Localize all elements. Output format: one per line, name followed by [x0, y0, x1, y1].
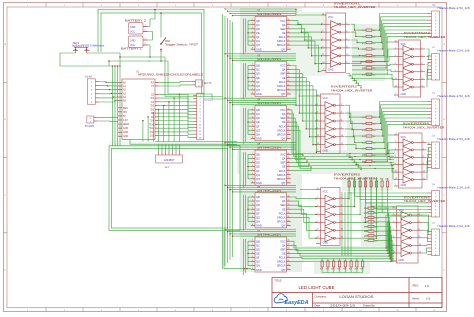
svg-text:9: 9: [288, 224, 289, 226]
svg-text:7: 7: [323, 69, 324, 71]
svg-text:QG: QG: [256, 84, 260, 88]
svg-text:15: 15: [288, 244, 290, 246]
wire SR6 fanout bottom bus: [291, 241, 394, 261]
svg-text:4: 4: [252, 31, 253, 33]
svg-text:2: 2: [341, 104, 342, 106]
svg-text:100: 100: [373, 130, 376, 132]
svg-text:OE: OE: [282, 165, 286, 169]
svg-text:2: 2: [252, 112, 253, 114]
svg-text:QH': QH': [281, 268, 286, 272]
svg-text:*D10: *D10: [149, 124, 155, 126]
svg-text:13: 13: [317, 143, 319, 145]
svg-text:QF: QF: [256, 35, 260, 39]
svg-text:13: 13: [393, 251, 395, 253]
svg-text:SRCLR: SRCLR: [277, 177, 286, 181]
wire bottom band to INV6 inputs: [385, 215, 392, 262]
svg-text:9: 9: [288, 268, 289, 270]
svg-text:2: 2: [252, 68, 253, 70]
IC INVERTER6 74HC04 hex inverter: [392, 195, 446, 263]
svg-text:3.3V: 3.3V: [123, 120, 128, 122]
svg-text:RCLK: RCLK: [279, 35, 286, 39]
IC U3 SN74HC595N shift register: [251, 54, 291, 96]
resistor array R26-R33 stack3: [364, 207, 378, 242]
svg-text:2: 2: [252, 23, 253, 25]
wire vertical bus KEY to loop: [112, 65, 121, 145]
svg-text:R38: R38: [369, 179, 372, 181]
svg-text:GND: GND: [399, 259, 405, 262]
wire row2 bottom return bus: [224, 231, 363, 273]
wire shield GND row: [130, 140, 237, 145]
svg-text:10: 10: [288, 220, 290, 222]
svg-text:RES: RES: [123, 108, 128, 110]
svg-text:7: 7: [393, 259, 394, 261]
svg-text:VCC: VCC: [280, 239, 286, 243]
header RX-TX: [192, 80, 212, 87]
svg-text:100: 100: [375, 236, 378, 238]
svg-text:AREF: AREF: [123, 123, 130, 126]
svg-text:13: 13: [395, 178, 397, 180]
svg-text:13: 13: [288, 76, 290, 78]
IC INVERTER2 74HC04 hex inverter: [316, 84, 373, 153]
svg-text:5: 5: [252, 212, 253, 214]
svg-text:R37: R37: [364, 179, 367, 181]
svg-text:QH: QH: [256, 88, 260, 92]
junction dots: [315, 24, 322, 146]
svg-text:RCLK: RCLK: [279, 80, 286, 84]
svg-text:2: 2: [419, 213, 420, 215]
IC U5 SN74HC595N shift register: [251, 143, 291, 185]
svg-text:9: 9: [322, 46, 323, 48]
svg-text:7: 7: [252, 177, 253, 179]
svg-text:GND: GND: [123, 128, 128, 130]
wire L1-7 pins to GND band: [159, 144, 180, 151]
svg-text:12: 12: [419, 251, 421, 253]
svg-text:7: 7: [395, 184, 396, 186]
wire INV6 outputs to header C6: [423, 215, 429, 253]
svg-text:QD: QD: [256, 27, 260, 31]
svg-text:QF: QF: [256, 124, 260, 128]
wire mid band to INV4: [387, 143, 394, 180]
svg-text:QB: QB: [256, 195, 260, 199]
svg-text:QD: QD: [256, 161, 260, 165]
title block: [272, 278, 442, 308]
svg-text:Header-Male-2.54_1x8: Header-Male-2.54_1x8: [438, 7, 471, 10]
svg-text:11: 11: [317, 229, 319, 231]
svg-text:7: 7: [252, 133, 253, 135]
wire U5 left hairpin loops: [244, 152, 251, 188]
svg-text:7: 7: [395, 93, 396, 95]
battery BATTERY 1: [121, 36, 148, 50]
svg-text:14: 14: [199, 137, 201, 139]
svg-text:BATTERY 2: BATTERY 2: [125, 19, 147, 23]
svg-text:TITLE:: TITLE:: [275, 280, 283, 283]
svg-text:16: 16: [288, 108, 290, 110]
svg-text:R17: R17: [362, 74, 365, 76]
svg-text:QH': QH': [281, 47, 286, 51]
svg-text:VCC: VCC: [323, 97, 328, 100]
svg-text:SRCLK: SRCLK: [277, 39, 286, 43]
IC INVERTER1 74HC04 hex inverter: [322, 1, 377, 72]
svg-text:QG: QG: [256, 173, 260, 177]
svg-text:6: 6: [423, 156, 424, 158]
svg-text:RCLK: RCLK: [279, 124, 286, 128]
svg-text:13: 13: [322, 62, 324, 64]
svg-text:3: 3: [322, 31, 323, 33]
svg-text:3: 3: [252, 248, 253, 250]
IC INVERTER3 74HC04 hex inverter: [394, 31, 446, 97]
svg-text:2: 2: [200, 99, 201, 101]
svg-text:14: 14: [395, 133, 397, 135]
svg-text:100: 100: [373, 155, 376, 157]
svg-text:1: 1: [395, 141, 396, 143]
svg-text:4: 4: [252, 76, 253, 78]
resistor array R18-R25 stack2: [362, 116, 376, 163]
svg-text:11: 11: [322, 54, 324, 56]
svg-text:R48: R48: [355, 269, 358, 271]
svg-text:12: 12: [421, 85, 423, 87]
svg-text:5: 5: [317, 213, 318, 215]
wire stack3 to bottom bus: [377, 208, 392, 261]
svg-text:SER: SER: [280, 116, 285, 120]
IC U7 SN74HC595N shift register: [251, 230, 291, 272]
svg-text:QC: QC: [256, 243, 260, 247]
svg-text:QA: QA: [282, 199, 286, 203]
svg-text:14: 14: [317, 188, 319, 190]
svg-text:4: 4: [421, 55, 422, 57]
svg-text:1: 1: [252, 240, 253, 242]
svg-text:14: 14: [288, 204, 290, 206]
svg-text:QG: QG: [256, 128, 260, 132]
svg-text:8: 8: [252, 224, 253, 226]
svg-text:VCC: VCC: [130, 31, 135, 34]
svg-text:RX: RX: [151, 82, 155, 84]
svg-text:1: 1: [252, 19, 253, 21]
wire A1-A5 to shield: [99, 82, 118, 103]
svg-text:1: 1: [393, 213, 394, 215]
svg-text:100: 100: [373, 149, 376, 151]
svg-text:3: 3: [252, 161, 253, 163]
svg-text:SRCLR: SRCLR: [277, 220, 286, 224]
wire RXTX: [159, 82, 192, 86]
svg-text:5: 5: [252, 256, 253, 258]
svg-text:QD: QD: [256, 203, 260, 207]
svg-text:16: 16: [288, 240, 290, 242]
svg-text:8: 8: [252, 181, 253, 183]
svg-text:10: 10: [288, 44, 290, 46]
wire SR3 SR4 fanout mid bus: [291, 110, 394, 171]
svg-text:GND: GND: [123, 136, 128, 138]
svg-text:3: 3: [395, 148, 396, 150]
svg-text:QE: QE: [256, 207, 260, 211]
svg-text:5: 5: [252, 35, 253, 37]
wire shield D2-D13 to header: [159, 94, 193, 137]
svg-text:VCC: VCC: [280, 108, 286, 112]
svg-text:15: 15: [288, 68, 290, 70]
svg-text:QE: QE: [256, 252, 260, 256]
svg-text:OE: OE: [282, 207, 286, 211]
wire U7 left hairpin loops: [244, 239, 251, 275]
svg-text:9: 9: [395, 163, 396, 165]
svg-text:QC: QC: [256, 68, 260, 72]
svg-text:100: 100: [373, 142, 376, 144]
svg-text:12: 12: [423, 178, 425, 180]
svg-text:74HC04_HEX_INVERTER: 74HC04_HEX_INVERTER: [403, 126, 446, 130]
svg-text:VCC: VCC: [280, 153, 286, 157]
svg-text:11: 11: [288, 84, 290, 86]
svg-text:13: 13: [288, 165, 290, 167]
svg-text:14: 14: [393, 206, 395, 208]
svg-text:3: 3: [317, 112, 318, 114]
svg-text:6: 6: [421, 63, 422, 65]
svg-text:100: 100: [373, 43, 376, 45]
svg-text:GND: GND: [256, 92, 262, 96]
svg-text:8: 8: [346, 46, 347, 48]
svg-text:11: 11: [395, 78, 397, 80]
svg-text:SRCLR: SRCLR: [277, 88, 286, 92]
svg-text:QE: QE: [256, 76, 260, 80]
IC INVERTER5 74HC04 hex inverter: [316, 173, 376, 246]
svg-text:A1-A5: A1-A5: [85, 75, 92, 78]
svg-text:16: 16: [288, 64, 290, 66]
svg-text:14: 14: [288, 72, 290, 74]
wire control bus verticals: [223, 14, 233, 269]
svg-text:14: 14: [322, 13, 324, 15]
svg-text:10: 10: [288, 264, 290, 266]
wire row1 to header C5: [349, 189, 427, 216]
svg-text:11: 11: [288, 260, 290, 262]
svg-text:6: 6: [252, 173, 253, 175]
svg-text:RCLK: RCLK: [279, 211, 286, 215]
svg-text:QD: QD: [256, 116, 260, 120]
svg-text:15: 15: [288, 23, 290, 25]
svg-text:SRCLK: SRCLK: [277, 84, 286, 88]
svg-text:13: 13: [288, 31, 290, 33]
svg-text:8: 8: [252, 268, 253, 270]
svg-text:2: 2: [423, 141, 424, 143]
svg-text:TX: TX: [151, 86, 154, 88]
svg-text:12: 12: [288, 169, 290, 171]
svg-text:KEY1: KEY1: [73, 42, 80, 45]
svg-text:D12: D12: [150, 132, 155, 134]
svg-text:R44: R44: [332, 269, 335, 271]
svg-text:13: 13: [288, 252, 290, 254]
svg-text:8: 8: [252, 48, 253, 50]
wire SR gap buses: [224, 8, 296, 236]
svg-text:SRCLK: SRCLK: [277, 260, 286, 264]
svg-text:R25: R25: [362, 161, 365, 163]
svg-text:5: 5: [393, 229, 394, 231]
svg-text:7: 7: [317, 242, 318, 244]
svg-text:QA: QA: [282, 68, 286, 72]
svg-text:12: 12: [341, 143, 343, 145]
svg-text:5: 5: [200, 108, 201, 110]
svg-text:QA: QA: [282, 112, 286, 116]
svg-text:QH': QH': [281, 136, 286, 140]
svg-text:14: 14: [317, 94, 319, 96]
svg-text:OE: OE: [282, 76, 286, 80]
svg-text:QH': QH': [281, 224, 286, 228]
svg-text:Sheet:: Sheet:: [412, 296, 420, 300]
svg-text:10: 10: [341, 135, 343, 137]
svg-text:12: 12: [199, 131, 201, 133]
svg-text:5V: 5V: [123, 116, 126, 118]
svg-text:6: 6: [252, 129, 253, 131]
svg-text:ARDUINO_SHIELDNCHOLESORLABELS: ARDUINO_SHIELDNCHOLESORLABELS: [138, 73, 203, 77]
svg-text:3: 3: [252, 72, 253, 74]
svg-text:QF: QF: [256, 169, 260, 173]
svg-text:100: 100: [373, 74, 376, 76]
svg-text:Header-Male-2.54_1x8: Header-Male-2.54_1x8: [438, 50, 471, 53]
wire battery switch net: [148, 9, 205, 97]
header 5V GND: [85, 116, 98, 128]
svg-text:SER: SER: [280, 161, 285, 165]
svg-text:RCLK: RCLK: [279, 169, 286, 173]
svg-text:QC: QC: [256, 112, 260, 116]
svg-text:GND: GND: [256, 181, 262, 185]
svg-text:R34: R34: [347, 179, 350, 181]
svg-text:R19: R19: [362, 124, 365, 126]
IC INVERTER4 74HC04 hex inverter: [394, 122, 445, 188]
svg-text:5: 5: [395, 156, 396, 158]
svg-text:2: 2: [252, 244, 253, 246]
svg-text:QE: QE: [256, 31, 260, 35]
svg-text:9: 9: [288, 92, 289, 94]
svg-text:OE: OE: [282, 120, 286, 124]
svg-text:GND: GND: [401, 184, 407, 187]
svg-text:1: 1: [252, 108, 253, 110]
background tint areas: [97, 8, 399, 274]
svg-text:SER: SER: [280, 72, 285, 76]
svg-text:4: 4: [346, 31, 347, 33]
svg-text:QG: QG: [256, 215, 260, 219]
svg-text:12: 12: [288, 80, 290, 82]
svg-text:11: 11: [317, 135, 319, 137]
svg-text:16: 16: [288, 19, 290, 21]
svg-text:1: 1: [200, 95, 201, 97]
svg-text:Company:: Company:: [315, 295, 328, 299]
svg-text:QE: QE: [256, 120, 260, 124]
svg-text:3: 3: [317, 205, 318, 207]
svg-text:5: 5: [322, 38, 323, 40]
svg-text:7: 7: [252, 44, 253, 46]
svg-text:100: 100: [375, 213, 378, 215]
svg-text:D13: D13: [150, 136, 155, 138]
svg-text:R12: R12: [362, 43, 365, 45]
svg-text:7: 7: [252, 264, 253, 266]
svg-text:100: 100: [373, 30, 376, 32]
svg-text:12: 12: [288, 35, 290, 37]
wire stack2 to headers C3 C4: [375, 102, 429, 180]
svg-text:QH: QH: [256, 43, 260, 47]
svg-text:R40: R40: [380, 179, 383, 181]
svg-text:10: 10: [346, 54, 348, 56]
svg-text:7: 7: [200, 115, 201, 117]
svg-text:R43: R43: [326, 269, 329, 271]
svg-text:100: 100: [375, 217, 378, 219]
svg-text:R39: R39: [375, 179, 378, 181]
svg-text:1: 1: [252, 64, 253, 66]
header C6 Header-Male-2.54_1x8: [428, 222, 471, 256]
svg-text:SRCLR: SRCLR: [277, 264, 286, 268]
svg-text:R13: R13: [362, 49, 365, 51]
svg-text:4: 4: [419, 221, 420, 223]
svg-text:5: 5: [252, 169, 253, 171]
svg-text:R15: R15: [362, 62, 365, 64]
svg-text:5: 5: [395, 63, 396, 65]
resistor array R42-R49 row2: [320, 258, 364, 271]
svg-text:GND: GND: [123, 132, 128, 134]
svg-text:4: 4: [252, 121, 253, 123]
svg-text:2019-09-19: 2019-09-19: [330, 304, 355, 308]
resistor array R34-R41 row1: [347, 178, 389, 190]
header C2 Header-Male-2.54_1x8: [428, 47, 471, 81]
svg-text:8: 8: [421, 70, 422, 72]
svg-text:REV:: REV:: [413, 284, 419, 288]
svg-text:QB: QB: [256, 153, 260, 157]
svg-text:6: 6: [252, 84, 253, 86]
svg-text:1234567: 1234567: [164, 158, 175, 162]
svg-text:SER: SER: [280, 203, 285, 207]
svg-text:16: 16: [288, 153, 290, 155]
svg-text:9: 9: [288, 137, 289, 139]
wire GND loop rectangle: [109, 146, 240, 231]
svg-text:QF: QF: [256, 211, 260, 215]
svg-text:5: 5: [252, 125, 253, 127]
svg-text:10: 10: [288, 177, 290, 179]
svg-text:VCC: VCC: [323, 191, 328, 194]
IC U6 SN74HC595N shift register: [251, 186, 291, 228]
svg-text:100: 100: [373, 161, 376, 163]
svg-text:QC: QC: [256, 199, 260, 203]
svg-text:8: 8: [252, 92, 253, 94]
svg-text:QA: QA: [282, 243, 286, 247]
svg-text:2: 2: [421, 47, 422, 49]
svg-text:6: 6: [419, 229, 420, 231]
svg-text:100: 100: [373, 37, 376, 39]
svg-text:9: 9: [288, 48, 289, 50]
svg-text:10: 10: [288, 88, 290, 90]
svg-text:QC: QC: [256, 157, 260, 161]
svg-text:100: 100: [373, 49, 376, 51]
svg-text:11: 11: [395, 171, 397, 173]
svg-text:1: 1: [322, 23, 323, 25]
svg-text:10: 10: [419, 244, 421, 246]
svg-text:L1-7: L1-7: [165, 167, 170, 169]
svg-text:R20: R20: [362, 130, 365, 132]
svg-text:100: 100: [375, 222, 378, 224]
svg-text:74HC04_HEX_INVERTER: 74HC04_HEX_INVERTER: [404, 35, 447, 39]
battery BATTERY 2: [125, 19, 148, 34]
IC U4 SN74HC595N shift register: [251, 99, 291, 141]
svg-text:QH: QH: [256, 264, 260, 268]
svg-text:14: 14: [288, 27, 290, 29]
svg-text:5V GND: 5V GND: [85, 125, 94, 128]
svg-text:16: 16: [288, 195, 290, 197]
svg-text:13: 13: [395, 85, 397, 87]
svg-text:QH: QH: [256, 220, 260, 224]
wire SR1 fanout to INV1: [291, 21, 322, 73]
svg-text:QB: QB: [256, 239, 260, 243]
svg-text:VCC: VCC: [280, 19, 286, 23]
header C3 Header-Male-2.54_1x8: [428, 92, 471, 126]
svg-text:9: 9: [393, 236, 394, 238]
svg-text:SRCLR: SRCLR: [277, 132, 286, 136]
svg-text:13: 13: [199, 134, 201, 136]
svg-text:QB: QB: [256, 19, 260, 23]
svg-text:QH: QH: [256, 132, 260, 136]
svg-text:GND: GND: [323, 149, 329, 152]
resistor array R10-R17 stack1: [362, 29, 376, 76]
